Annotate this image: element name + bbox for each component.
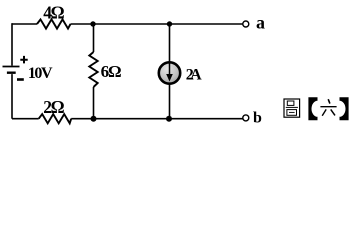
battery plus sign xyxy=(20,56,27,64)
wire left vertical upper (to battery) xyxy=(11,23,13,65)
node junction bottom of current source xyxy=(166,116,172,122)
current source arrow down xyxy=(169,63,171,76)
caption left lenticular bracket xyxy=(308,97,317,120)
wire bottom from R2 to terminal b xyxy=(71,118,242,120)
node junction bottom of 6ohm xyxy=(91,116,97,122)
wire current source branch lower xyxy=(169,84,171,119)
wire top-left to resistor R1 xyxy=(12,23,37,25)
svg-text:2Ω: 2Ω xyxy=(43,97,64,117)
current source I1 circle xyxy=(159,62,180,83)
svg-text:4Ω: 4Ω xyxy=(43,2,64,22)
node junction top of 6ohm xyxy=(90,21,95,26)
resistor R1 4ohm zigzag xyxy=(37,19,71,28)
wire top from R1 to terminal a xyxy=(71,23,243,25)
svg-text:b: b xyxy=(253,109,262,126)
node junction top of current source xyxy=(167,21,172,26)
svg-text:a: a xyxy=(256,13,265,33)
wire bottom-left to resistor R2 xyxy=(12,118,39,120)
battery V1 short thick plate xyxy=(7,71,16,73)
wire 6ohm branch upper xyxy=(93,24,95,52)
wire left vertical lower (battery to bottom) xyxy=(11,74,13,119)
resistor R2 2ohm zigzag xyxy=(39,114,71,123)
svg-text:6Ω: 6Ω xyxy=(101,62,122,81)
wire 6ohm branch lower xyxy=(93,87,95,119)
svg-text:10V: 10V xyxy=(28,65,53,82)
resistor R3 6ohm vertical zigzag xyxy=(89,52,97,87)
terminal b open circle xyxy=(243,115,249,121)
wire current source branch upper xyxy=(169,24,171,62)
battery V1 long plate xyxy=(3,66,20,68)
caption glyph tu (figure) xyxy=(284,99,300,117)
terminal a open circle xyxy=(243,21,249,27)
caption glyph six xyxy=(320,99,336,116)
caption right lenticular bracket xyxy=(340,97,349,120)
svg-text:2A: 2A xyxy=(186,67,202,84)
battery minus sign xyxy=(17,78,24,81)
